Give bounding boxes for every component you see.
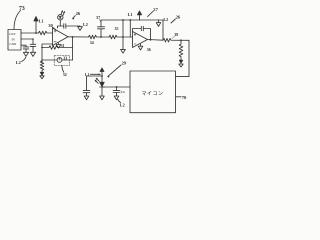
svg-text:35: 35 bbox=[115, 26, 119, 31]
svg-text:27: 27 bbox=[153, 7, 158, 12]
svg-text:L1: L1 bbox=[128, 12, 133, 17]
svg-text:70: 70 bbox=[182, 95, 187, 100]
svg-text:OUT: OUT bbox=[9, 32, 16, 36]
svg-text:31: 31 bbox=[61, 43, 65, 48]
svg-text:36: 36 bbox=[147, 47, 151, 52]
svg-text:33: 33 bbox=[63, 56, 67, 61]
svg-text:34: 34 bbox=[90, 40, 94, 45]
svg-text:GND: GND bbox=[9, 42, 17, 46]
svg-text:26: 26 bbox=[76, 11, 81, 16]
svg-text:73: 73 bbox=[19, 6, 25, 12]
svg-text:30: 30 bbox=[48, 23, 53, 28]
svg-text:L2: L2 bbox=[163, 17, 168, 22]
svg-text:L2: L2 bbox=[120, 102, 125, 107]
svg-text:26: 26 bbox=[176, 14, 181, 19]
svg-text:C4: C4 bbox=[121, 90, 125, 94]
svg-text:L1: L1 bbox=[85, 73, 90, 77]
svg-text:L1: L1 bbox=[39, 18, 44, 23]
svg-text:L2: L2 bbox=[83, 22, 88, 27]
svg-text:マイコン: マイコン bbox=[142, 91, 164, 97]
svg-text:32: 32 bbox=[63, 72, 67, 77]
svg-text:L2: L2 bbox=[16, 60, 21, 65]
svg-text:37: 37 bbox=[96, 15, 100, 20]
svg-text:38: 38 bbox=[174, 32, 178, 37]
